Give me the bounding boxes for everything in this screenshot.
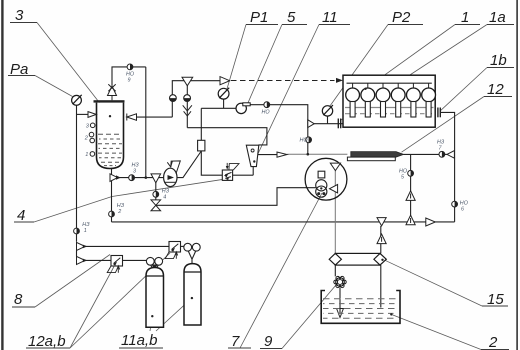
svg-text:1: 1 [461, 9, 469, 26]
underline label 12 [484, 96, 512, 98]
arrow into engine [336, 78, 343, 83]
cooler 15 left rhombus [329, 253, 341, 265]
ejector 11 leader dot [253, 160, 255, 162]
pump unit 7 motor square [318, 171, 325, 178]
wire cooler right to tank [380, 265, 382, 307]
wire NO5 branch [410, 154, 412, 215]
wire grey ejector to heat exchanger [287, 153, 347, 155]
underline label 7 [228, 347, 251, 349]
flow arrow after ejector [277, 152, 287, 157]
hand pump funnel [167, 161, 180, 174]
gate funnel valve at x381 on bottom line [377, 218, 386, 226]
leader label 1a [340, 25, 487, 121]
svg-text:4: 4 [17, 207, 25, 224]
underline label 3 [10, 22, 37, 24]
svg-text:НО: НО [300, 138, 309, 144]
wire vessel bottom riser [111, 169, 113, 222]
leader label 12a,b (to reducer b) [70, 253, 170, 348]
svg-text:3: 3 [15, 7, 24, 24]
frame left border [1, 0, 3, 350]
vessel 3 lid [94, 100, 125, 102]
wire regulator output [246, 105, 307, 155]
valve NZ7 [439, 151, 445, 157]
gas cylinder a shoulder line [146, 275, 164, 277]
gate valve above NZ4 [151, 174, 161, 183]
valve NZ3 [129, 175, 135, 181]
engine cylinder 4 [391, 88, 405, 102]
valve NO9 [127, 64, 133, 70]
wire reducer b to cylinder b [181, 245, 184, 247]
wire dashed control to engine [231, 80, 335, 82]
underline label 1 [455, 24, 480, 26]
wire control line to ejector corner [187, 128, 267, 145]
vessel outlet valve [110, 174, 121, 182]
cooler 15 leader dot [381, 259, 383, 261]
underline label 4 [14, 221, 34, 223]
ejector 11 nozzle circle [251, 149, 254, 152]
wire charge line b [85, 245, 169, 247]
valve NZ1 [74, 228, 80, 234]
engine cylinder 5 [407, 88, 421, 102]
svg-text:5: 5 [287, 9, 296, 26]
ejector 11 drain stem [252, 167, 254, 176]
ejector 11 body [246, 145, 258, 166]
leader label 11 [254, 25, 319, 162]
engine 1 block [343, 75, 435, 127]
wire filter to square valve line [201, 151, 222, 175]
tank 2 liquid [323, 299, 398, 319]
wire vessel top to NO9 valve [112, 67, 146, 86]
engine dashed gallery [345, 113, 434, 115]
svg-text:9: 9 [264, 333, 273, 350]
engine gallery line [345, 107, 434, 109]
sensor circle on branch [184, 95, 191, 102]
engine cylinder 1 [346, 88, 360, 102]
flange engine outlet [438, 108, 440, 118]
svg-text:6: 6 [461, 207, 464, 213]
junction dot at vessel drain line [145, 176, 148, 179]
vent funnel on top line [182, 77, 193, 86]
svg-text:2: 2 [488, 334, 498, 350]
arrow chevrons on branch [183, 105, 192, 116]
hand pump ellipse [164, 168, 177, 186]
wire cooler right riser upper [380, 226, 382, 254]
wire cooler left drop [334, 265, 336, 276]
engine cylinder 2 [361, 88, 375, 102]
svg-text:3: 3 [133, 169, 136, 175]
engine cylinder stems [353, 83, 429, 88]
hourglass valve at drain [151, 200, 161, 211]
underline label 9 [260, 348, 282, 350]
svg-text:8: 8 [14, 291, 23, 308]
leader label 1 [366, 25, 456, 89]
wire pump to filter diagonal [177, 151, 201, 178]
reducer 12a pilot arrow [117, 266, 120, 273]
leader label 8 [35, 255, 110, 308]
cooler 15 shell [335, 253, 380, 265]
svg-text:1b: 1b [490, 52, 507, 69]
engine cylinder 6 [422, 88, 436, 102]
wire drain line y205 [156, 188, 316, 206]
engine barrel 3 [381, 102, 386, 118]
gauge P1 [218, 88, 229, 99]
wire vessel left inlet [77, 113, 89, 115]
underline label 2 [481, 349, 509, 350]
cylinder a hand wheels [146, 257, 162, 273]
reducer 12a flag [107, 266, 118, 273]
check valve up at bottom line x410 [406, 215, 415, 225]
wire square valve to ejector stem [233, 174, 254, 176]
leader label 5 [248, 25, 282, 103]
underline label 11 [319, 24, 350, 26]
wire riser up to top line [172, 81, 220, 117]
cylinder a neck arrow [152, 265, 157, 272]
wire reducer a to cylinder a [123, 259, 147, 261]
svg-text:9: 9 [128, 78, 131, 84]
leader dot on vessel [109, 115, 111, 117]
wire heat exchanger output [404, 153, 440, 155]
svg-text:P1: P1 [250, 9, 268, 26]
svg-text:НО: НО [262, 110, 271, 116]
wire vessel outlet line [119, 177, 164, 179]
cylinder b neck stem [191, 259, 193, 264]
gauge Pa [72, 95, 82, 105]
gas cylinder a [146, 268, 164, 328]
leader label 9 [282, 285, 336, 349]
svg-text:Pa: Pa [10, 61, 28, 78]
sensor circle on riser [170, 95, 177, 102]
wire between check arrows [76, 250, 78, 256]
check valve on trunk at hx [447, 151, 454, 159]
underline label 12a,b [26, 347, 70, 349]
wire ejector output [258, 154, 277, 156]
underline label 11a,b [119, 347, 163, 349]
svg-text:P2: P2 [392, 9, 411, 26]
pump unit 7 circle [305, 158, 347, 200]
check valve to engine [308, 120, 314, 128]
charge check valve a [77, 256, 88, 264]
wire charge line a [85, 259, 111, 261]
underline label 5 [282, 24, 307, 26]
underline label P1 [246, 24, 278, 26]
level sensor 1 [90, 152, 95, 157]
flange engine inlet [338, 119, 340, 129]
valve NO6 on right trunk [452, 201, 458, 207]
wire check valve to engine inlet [314, 123, 343, 125]
leader label P1 [227, 25, 246, 90]
valve NZ2 [109, 211, 115, 217]
underline label 8 [12, 306, 35, 308]
wire pump9 outlet shaft [339, 288, 341, 314]
charge check valve b [77, 242, 88, 250]
svg-text:1a: 1a [489, 9, 506, 26]
gas cylinder b [184, 264, 201, 325]
valve NO on engine branch [306, 137, 312, 143]
wire branch down through sensors [186, 85, 188, 128]
engine barrel 6 [426, 102, 431, 118]
svg-text:1: 1 [85, 152, 88, 158]
engine barrel 4 [396, 102, 401, 118]
leader label P2 [330, 25, 389, 107]
underline label 1a [487, 24, 514, 26]
wire gate valve stem to NZ4 [155, 183, 157, 200]
check valve into vessel left [88, 112, 96, 118]
leader label 4 [34, 179, 228, 222]
square valve 4 flag [229, 164, 239, 171]
frame right border [516, 0, 518, 350]
pump 9 gear circle [334, 276, 346, 287]
leader label 11a,b (to cylinder a) [150, 316, 152, 331]
pump 9 arrow shaft tip [339, 309, 341, 314]
svg-text:12a,b: 12a,b [28, 333, 66, 350]
pump 9 outlet arrowhead [337, 309, 344, 318]
reducer 12b body [169, 242, 181, 253]
check valve on top line [220, 77, 230, 85]
heat exchanger 12 hot bar [351, 152, 404, 158]
wire NZ7 to check valve [445, 153, 447, 155]
wire long bottom line [112, 221, 455, 223]
level sensor 2 (pair) [89, 132, 94, 137]
tank 2 walls [321, 291, 400, 324]
engine top inner line [347, 82, 432, 84]
engine barrel 2 [365, 102, 370, 118]
leader label 7 [240, 193, 322, 348]
cooler 15 right rhombus [374, 253, 386, 265]
wire left trunk from gauge Pa [76, 105, 78, 242]
valve NO on regulator output [264, 102, 270, 108]
tank 2 leader dot [390, 313, 392, 315]
leader label 12a,b (to reducer a) [70, 267, 114, 349]
leader label 3 [37, 23, 110, 117]
check valve into vessel right [127, 114, 137, 121]
cylinder a neck stem [154, 272, 156, 277]
svg-text:11a,b: 11a,b [121, 332, 157, 349]
square valve 4 [222, 170, 232, 180]
leader label 15 [384, 260, 482, 306]
level sensor 3 [90, 123, 95, 128]
gas cylinder b leader dot [191, 297, 193, 299]
cylinder b hand wheels [184, 243, 200, 259]
reducer 12b flag [165, 252, 176, 259]
underline label 1b [487, 67, 514, 69]
svg-text:11: 11 [322, 9, 338, 26]
leader label 2 [391, 314, 481, 349]
engine barrel 5 [411, 102, 416, 118]
leader label 12 [402, 97, 485, 153]
vessel 3 liquid [98, 134, 122, 165]
svg-text:2: 2 [117, 209, 121, 215]
pressure regulator 5 [236, 103, 250, 114]
vessel 3 body [97, 103, 124, 169]
flow arrow on bottom line [426, 218, 436, 226]
valve NO5 [408, 170, 414, 176]
wire grey pump to cooler vertical [334, 171, 336, 254]
heat exchanger 12 shell [347, 157, 395, 161]
leader label Pa [35, 76, 73, 97]
wire filter riser top [200, 108, 202, 140]
junction dot at engine branch [307, 153, 310, 156]
pump unit 7 funnel [330, 163, 340, 171]
engine cylinder 3 [376, 88, 390, 102]
pump unit 7 check valve [330, 185, 338, 193]
svg-text:1: 1 [84, 228, 87, 234]
wire gauge P2 stem [327, 116, 329, 124]
leader dot in engine cylinder 2 [364, 88, 366, 90]
svg-text:12: 12 [487, 81, 504, 98]
gas cylinder a leader dot [151, 315, 153, 317]
safety valve on vessel [108, 84, 117, 100]
underline label 15 [482, 305, 508, 307]
gas cylinder b shoulder line [184, 271, 201, 273]
filter on riser [198, 140, 205, 151]
pump unit 7 gears [316, 180, 327, 198]
leader dot square valve [226, 178, 228, 180]
underline label P2 [388, 24, 423, 26]
gauge P2 [322, 105, 333, 116]
leader label 11a,b (to cylinder b) [156, 298, 192, 331]
wire vessel right side to riser [137, 116, 173, 118]
reducer 12a body [111, 256, 123, 267]
engine barrel 1 [350, 102, 355, 118]
wire long vertical from NO9 corner [145, 67, 147, 178]
check valve above cooler right [377, 234, 386, 244]
wire engine outlet to right trunk [440, 112, 454, 221]
valve NZ4 [153, 191, 159, 197]
wire to regulator [201, 107, 236, 109]
square valve 4 pilot arrow [226, 163, 229, 170]
check valve up on NO5 branch [406, 191, 415, 201]
svg-text:4: 4 [163, 195, 166, 201]
leader label 1b [440, 68, 487, 111]
underline label Pa [8, 75, 35, 77]
wire gauge P1 stem [223, 99, 225, 108]
svg-text:15: 15 [487, 291, 504, 308]
svg-text:7: 7 [231, 333, 240, 350]
reducer 12b pilot arrow [175, 252, 178, 259]
